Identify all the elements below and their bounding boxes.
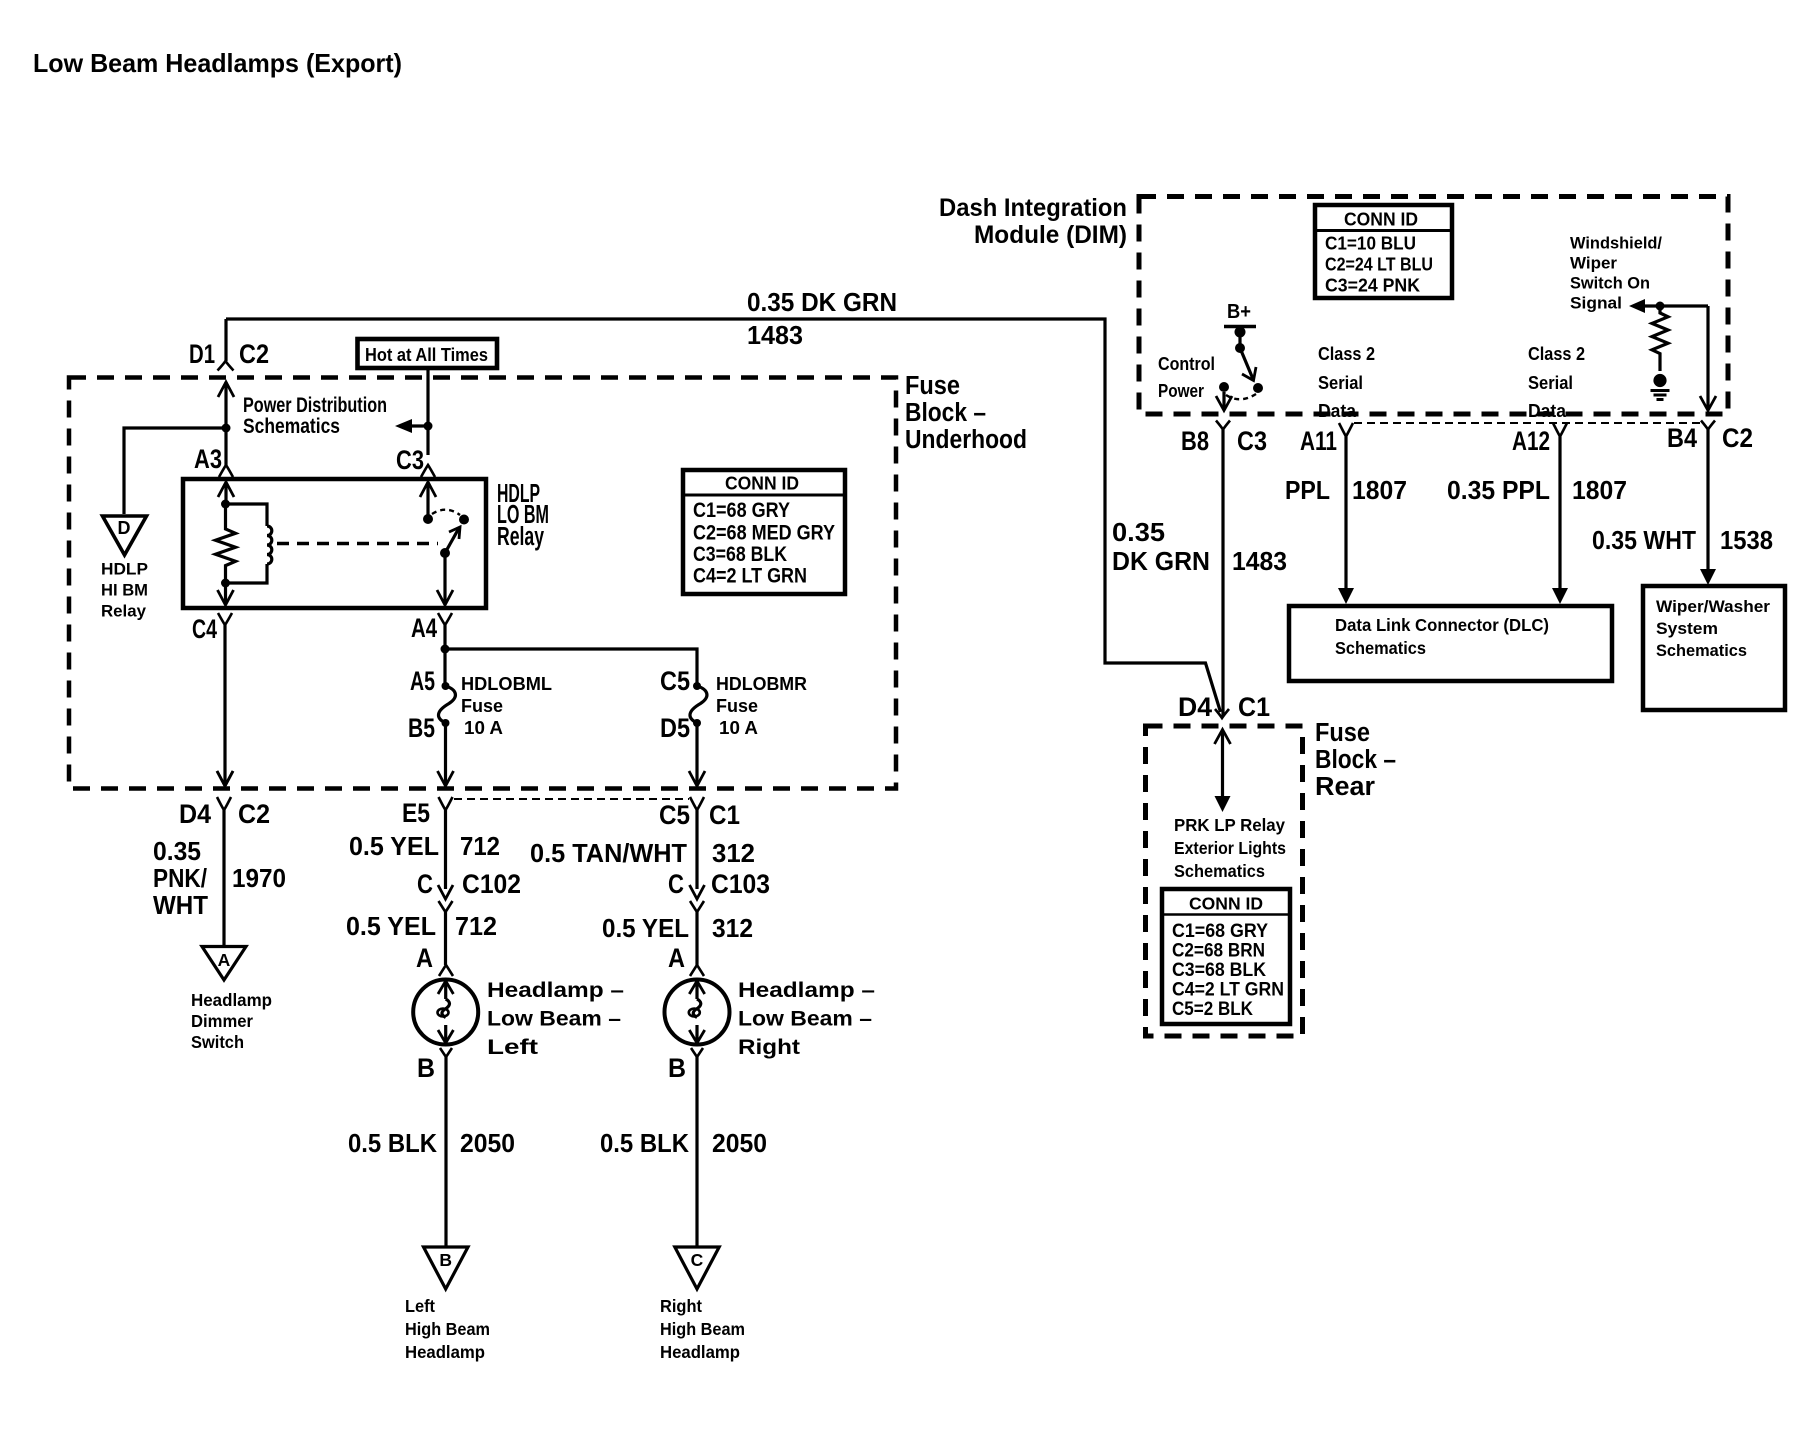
svg-text:Dimmer: Dimmer bbox=[191, 1011, 253, 1031]
svg-text:DK GRN: DK GRN bbox=[1112, 548, 1210, 576]
in-line connector C102 bbox=[438, 885, 453, 899]
svg-text:1538: 1538 bbox=[1720, 527, 1773, 555]
svg-text:A: A bbox=[218, 950, 231, 970]
wire: B4 to wiper/washer box with solid arrow bbox=[1706, 430, 1709, 571]
svg-text:C1=68 GRY: C1=68 GRY bbox=[693, 499, 790, 522]
svg-text:C: C bbox=[691, 1250, 704, 1270]
svg-text:C3=68 BLK: C3=68 BLK bbox=[1172, 960, 1266, 981]
svg-text:C1=68 GRY: C1=68 GRY bbox=[1172, 921, 1268, 942]
wire: control power down to B8 with arrow bbox=[1222, 392, 1225, 409]
svg-text:Serial: Serial bbox=[1318, 373, 1363, 393]
wire: Hot at All Times down to relay C3 bbox=[426, 368, 429, 455]
svg-text:10 A: 10 A bbox=[719, 718, 758, 738]
svg-text:HDLP: HDLP bbox=[101, 561, 148, 579]
coil L1 (relay winding) bbox=[226, 504, 268, 526]
svg-text:Fuse: Fuse bbox=[461, 696, 503, 716]
node: switch pivot bbox=[440, 548, 450, 558]
svg-text:Headlamp: Headlamp bbox=[660, 1342, 740, 1362]
svg-text:Headlamp: Headlamp bbox=[191, 990, 272, 1010]
ground bbox=[1651, 374, 1670, 400]
svg-text:Left: Left bbox=[487, 1036, 538, 1059]
in-line connector C103 bbox=[690, 885, 705, 899]
node: switch NO contact bbox=[459, 515, 469, 525]
svg-text:1483: 1483 bbox=[747, 322, 803, 350]
svg-text:Schematics: Schematics bbox=[1174, 861, 1265, 881]
svg-text:Exterior Lights: Exterior Lights bbox=[1174, 838, 1286, 858]
svg-text:A: A bbox=[416, 943, 433, 973]
power distribution feed arrow (solid, pointing left) bbox=[424, 422, 433, 431]
svg-text:Class 2: Class 2 bbox=[1528, 344, 1585, 364]
svg-text:0.5 BLK: 0.5 BLK bbox=[348, 1130, 438, 1158]
svg-text:D5: D5 bbox=[660, 713, 690, 743]
svg-text:HI BM: HI BM bbox=[101, 582, 148, 600]
connector C5/C1 cup bbox=[690, 797, 704, 810]
fuse block rear dashed box bbox=[1146, 726, 1303, 1036]
svg-text:E5: E5 bbox=[402, 798, 430, 828]
connector D4/C1 cup bbox=[1215, 709, 1229, 718]
svg-text:C3: C3 bbox=[1237, 426, 1267, 456]
svg-text:C2=68 MED GRY: C2=68 MED GRY bbox=[693, 522, 835, 545]
node: switch fixed contact (from C3) bbox=[423, 514, 433, 524]
arrow down at fuse block edge (C4 branch) bbox=[217, 771, 233, 786]
lamp: Headlamp Low Beam Left bbox=[413, 980, 478, 1045]
dashed arc control power switch bbox=[1226, 394, 1256, 399]
svg-text:C5: C5 bbox=[659, 800, 690, 830]
wire: right fuse down to C5/C1 bbox=[695, 723, 698, 785]
fuse HDLOBML 10A bbox=[438, 682, 455, 727]
svg-text:1970: 1970 bbox=[232, 865, 286, 893]
node: resistor tap bbox=[1656, 302, 1665, 311]
node: switch contact left (control power out) bbox=[1219, 382, 1229, 392]
svg-text:PNK/: PNK/ bbox=[153, 865, 207, 893]
svg-text:0.35: 0.35 bbox=[153, 838, 201, 866]
svg-text:C3: C3 bbox=[396, 445, 424, 475]
wire: B8 down to fuse block rear (0.35 DK GRN 1483) bbox=[1221, 430, 1224, 717]
svg-text:C2=24 LT BLU: C2=24 LT BLU bbox=[1325, 255, 1433, 275]
svg-text:Data Link Connector (DLC): Data Link Connector (DLC) bbox=[1335, 615, 1549, 635]
svg-text:C3=24 PNK: C3=24 PNK bbox=[1325, 276, 1420, 296]
svg-text:Relay: Relay bbox=[101, 603, 147, 621]
wire: branch to HDLP HI BM relay triangle bbox=[124, 428, 226, 514]
relay coil input arrow (up) bbox=[224, 483, 227, 504]
CONN ID table (fuse block rear) bbox=[1162, 889, 1290, 1024]
svg-text:A: A bbox=[668, 943, 685, 973]
svg-text:C5: C5 bbox=[660, 666, 690, 696]
svg-text:C4=2 LT GRN: C4=2 LT GRN bbox=[1172, 980, 1284, 1001]
fuse HDLOBMR 10A bbox=[690, 682, 707, 727]
svg-text:D1: D1 bbox=[189, 339, 215, 369]
resistor (relay) bbox=[216, 504, 236, 583]
dashed arc between contacts bbox=[432, 510, 460, 515]
node: coil top junction bbox=[221, 500, 230, 509]
wire: left fuse down to E5 bbox=[444, 723, 447, 785]
svg-text:B5: B5 bbox=[408, 713, 435, 743]
B+ bar terminal bbox=[1224, 325, 1256, 328]
svg-text:C: C bbox=[417, 869, 433, 899]
svg-text:0.5 YEL: 0.5 YEL bbox=[349, 833, 439, 861]
svg-text:Low Beam Headlamps (Export): Low Beam Headlamps (Export) bbox=[33, 48, 402, 78]
svg-text:HDLOBMR: HDLOBMR bbox=[716, 674, 807, 694]
svg-text:CONN ID: CONN ID bbox=[725, 474, 799, 494]
svg-text:Right: Right bbox=[660, 1296, 702, 1316]
svg-text:Fuse: Fuse bbox=[905, 372, 960, 400]
connector A12 cup bbox=[1553, 423, 1567, 437]
svg-text:712: 712 bbox=[455, 913, 497, 941]
svg-text:Block –: Block – bbox=[1315, 746, 1396, 774]
dashed mechanical link coil to switch bbox=[277, 542, 438, 545]
svg-text:Relay: Relay bbox=[497, 523, 545, 551]
rear feed double arrow bbox=[1221, 730, 1224, 797]
svg-text:1807: 1807 bbox=[1572, 477, 1627, 505]
svg-text:Wiper: Wiper bbox=[1570, 255, 1618, 273]
svg-text:Headlamp –: Headlamp – bbox=[487, 979, 624, 1002]
svg-text:712: 712 bbox=[460, 833, 500, 861]
node: coil bottom junction bbox=[221, 579, 230, 588]
junction node at power distribution tap bbox=[222, 424, 231, 433]
svg-text:B+: B+ bbox=[1227, 301, 1251, 323]
CONN ID table (DIM) bbox=[1315, 205, 1452, 298]
svg-text:C103: C103 bbox=[711, 869, 770, 899]
svg-text:B: B bbox=[417, 1053, 435, 1083]
svg-text:A4: A4 bbox=[411, 613, 437, 643]
arrow down at fuse block edge (E5) bbox=[438, 771, 454, 786]
resistor (windshield wiper pull-up) bbox=[1652, 306, 1668, 371]
connector D4/C2 cup bbox=[217, 797, 231, 810]
svg-text:Rear: Rear bbox=[1315, 773, 1375, 801]
triangle connector A (headlamp dimmer switch) bbox=[202, 947, 246, 981]
wire: windshield signal horizontal bbox=[1643, 304, 1708, 307]
node: switch contact right bbox=[1253, 383, 1263, 393]
wire: battery feed 0.35 DK GRN 1483 top run bbox=[226, 319, 1221, 712]
svg-text:C: C bbox=[668, 869, 684, 899]
svg-text:C4: C4 bbox=[192, 614, 217, 644]
svg-text:PRK LP Relay: PRK LP Relay bbox=[1174, 815, 1285, 835]
wire: split across to right fuse bbox=[445, 649, 697, 686]
connector A3 cup bbox=[219, 465, 233, 477]
connector cup at right lamp A bbox=[690, 965, 704, 976]
Hot at All Times box bbox=[358, 339, 498, 368]
connector B4/C2 cup bbox=[1701, 421, 1715, 430]
wire: A4 down to fuse split bbox=[443, 625, 446, 686]
svg-text:Headlamp –: Headlamp – bbox=[738, 979, 875, 1002]
svg-text:CONN ID: CONN ID bbox=[1189, 894, 1263, 914]
svg-text:PPL: PPL bbox=[1285, 477, 1330, 505]
relay U1 HDLP LO BM Relay box bbox=[183, 479, 486, 608]
svg-text:Control: Control bbox=[1158, 354, 1215, 374]
svg-text:High Beam: High Beam bbox=[660, 1319, 745, 1339]
connector D1/C2 cup bbox=[218, 361, 234, 371]
svg-text:0.35 PPL: 0.35 PPL bbox=[1447, 477, 1550, 505]
svg-text:Fuse: Fuse bbox=[716, 696, 758, 716]
in-line connector dashed line A11 to B4 bbox=[1354, 422, 1701, 424]
wire: A11 to DLC with solid arrow bbox=[1344, 437, 1347, 590]
wire: A12 to DLC with solid arrow bbox=[1558, 437, 1561, 590]
svg-text:HDLOBML: HDLOBML bbox=[461, 674, 552, 694]
svg-text:0.35 WHT: 0.35 WHT bbox=[1592, 527, 1696, 555]
connector cup below left lamp bbox=[440, 1048, 452, 1057]
svg-text:A5: A5 bbox=[410, 666, 435, 696]
svg-text:Serial: Serial bbox=[1528, 373, 1573, 393]
wire: 0.5 BLK 2050 right bbox=[695, 1057, 698, 1246]
svg-text:Fuse: Fuse bbox=[1315, 719, 1370, 747]
svg-text:A12: A12 bbox=[1512, 426, 1550, 456]
svg-text:C3=68 BLK: C3=68 BLK bbox=[693, 543, 787, 566]
Data Link Connector (DLC) Schematics box bbox=[1289, 606, 1612, 681]
svg-text:312: 312 bbox=[712, 840, 755, 868]
svg-text:1807: 1807 bbox=[1352, 477, 1407, 505]
switch arm with arrowhead bbox=[445, 528, 459, 553]
Wiper/Washer System Schematics box bbox=[1643, 586, 1785, 710]
connector C3 cup bbox=[421, 465, 435, 477]
svg-text:A11: A11 bbox=[1300, 426, 1337, 456]
svg-text:B: B bbox=[439, 1250, 452, 1270]
svg-text:0.5 YEL: 0.5 YEL bbox=[602, 915, 689, 943]
svg-text:High Beam: High Beam bbox=[405, 1319, 490, 1339]
svg-text:C1: C1 bbox=[709, 800, 740, 830]
svg-text:312: 312 bbox=[712, 915, 753, 943]
svg-text:C102: C102 bbox=[462, 869, 521, 899]
windshield signal arrow (solid, pointing left) bbox=[1629, 299, 1645, 313]
connector E5 cup bbox=[439, 797, 453, 810]
connector A4 cup bbox=[438, 613, 452, 625]
svg-text:Hot at All Times: Hot at All Times bbox=[365, 345, 488, 365]
wire: C5/C1 down to C103 bbox=[695, 810, 698, 889]
svg-text:C2: C2 bbox=[239, 339, 269, 369]
svg-text:Switch On: Switch On bbox=[1570, 275, 1650, 293]
svg-text:Right: Right bbox=[738, 1036, 800, 1059]
svg-text:0.5 TAN/WHT: 0.5 TAN/WHT bbox=[530, 840, 687, 868]
relay coil output arrow (down) bbox=[224, 583, 227, 604]
svg-text:Data: Data bbox=[1318, 401, 1357, 421]
svg-text:D4: D4 bbox=[179, 799, 211, 829]
wire: E5 down to C102 bbox=[444, 810, 447, 889]
svg-text:C2=68 BRN: C2=68 BRN bbox=[1172, 941, 1265, 962]
svg-text:C2: C2 bbox=[238, 799, 270, 829]
svg-text:Schematics: Schematics bbox=[1656, 642, 1747, 660]
wire: windshield signal down to B4 with arrow bbox=[1706, 306, 1709, 409]
fuse block underhood dashed box bbox=[69, 378, 896, 789]
CONN ID table (fuse block underhood) bbox=[683, 470, 845, 594]
svg-text:0.5 BLK: 0.5 BLK bbox=[600, 1130, 690, 1158]
lamp: Headlamp Low Beam Right bbox=[665, 980, 730, 1045]
svg-text:B: B bbox=[668, 1053, 686, 1083]
svg-text:D: D bbox=[118, 518, 131, 538]
svg-text:Low Beam –: Low Beam – bbox=[738, 1008, 872, 1031]
svg-text:B8: B8 bbox=[1181, 426, 1209, 456]
wire: C103 down to right lamp A bbox=[695, 912, 698, 965]
svg-text:0.35 DK GRN: 0.35 DK GRN bbox=[747, 289, 897, 317]
triangle connector C (right high beam headlamp) bbox=[675, 1247, 719, 1289]
svg-text:D4: D4 bbox=[1178, 692, 1212, 722]
triangle connector B (left high beam headlamp) bbox=[424, 1247, 469, 1289]
wire: stub down to D1/C2 connector bbox=[224, 319, 227, 361]
node: fuse feed split bbox=[441, 645, 450, 654]
svg-text:Headlamp: Headlamp bbox=[405, 1342, 485, 1362]
svg-text:Low Beam –: Low Beam – bbox=[487, 1008, 621, 1031]
arrow up into fuse block at D1 with shaft bbox=[224, 382, 227, 465]
svg-text:Power Distribution: Power Distribution bbox=[243, 394, 387, 417]
svg-text:Wiper/Washer: Wiper/Washer bbox=[1656, 598, 1771, 616]
svg-text:B4: B4 bbox=[1667, 423, 1697, 453]
connector cup below right lamp bbox=[691, 1048, 703, 1057]
svg-text:1483: 1483 bbox=[1232, 548, 1287, 576]
in-line connector dashed line E5 to C5 bbox=[454, 798, 689, 800]
svg-text:A3: A3 bbox=[194, 444, 222, 474]
wire: 0.5 BLK 2050 left bbox=[444, 1057, 447, 1246]
svg-text:Signal: Signal bbox=[1570, 295, 1622, 313]
svg-text:2050: 2050 bbox=[460, 1130, 515, 1158]
svg-text:Module (DIM): Module (DIM) bbox=[974, 221, 1127, 249]
svg-text:Left: Left bbox=[405, 1296, 435, 1316]
svg-text:C1=10 BLU: C1=10 BLU bbox=[1325, 234, 1416, 254]
svg-text:System: System bbox=[1656, 620, 1718, 638]
connector A11 cup bbox=[1339, 423, 1353, 437]
svg-text:CONN ID: CONN ID bbox=[1344, 210, 1418, 230]
triangle connector D (HDLP HI BM Relay) bbox=[103, 516, 147, 555]
svg-text:Windshield/: Windshield/ bbox=[1570, 235, 1662, 253]
svg-text:2050: 2050 bbox=[712, 1130, 767, 1158]
svg-text:C5=2 BLK: C5=2 BLK bbox=[1172, 999, 1253, 1020]
svg-text:Dash Integration: Dash Integration bbox=[939, 194, 1127, 222]
svg-text:Schematics: Schematics bbox=[1335, 638, 1426, 658]
svg-text:0.5 YEL: 0.5 YEL bbox=[346, 913, 436, 941]
connector B8/C3 cup bbox=[1216, 421, 1230, 430]
svg-text:Underhood: Underhood bbox=[905, 426, 1027, 454]
svg-text:C4=2 LT GRN: C4=2 LT GRN bbox=[693, 565, 807, 588]
wire: C102 down to lamp A bbox=[444, 912, 447, 965]
svg-text:C1: C1 bbox=[1238, 692, 1270, 722]
arrow down at fuse block edge (C5/C1) bbox=[689, 771, 705, 786]
wire: C4 down to fuse block exit bbox=[223, 625, 226, 785]
svg-text:WHT: WHT bbox=[153, 892, 208, 920]
DIM dashed box (Dash Integration Module) bbox=[1139, 197, 1728, 415]
relay switch output arrow (down to A4) bbox=[443, 553, 446, 604]
arrow down at fuse block edge (D4/C2 branch) bbox=[217, 771, 233, 786]
connector cup at left lamp A bbox=[439, 965, 453, 976]
control power switch arm bbox=[1238, 332, 1241, 347]
svg-text:Schematics: Schematics bbox=[243, 415, 340, 438]
svg-text:C2: C2 bbox=[1722, 423, 1753, 453]
svg-text:Switch: Switch bbox=[191, 1032, 244, 1052]
svg-text:0.35: 0.35 bbox=[1112, 519, 1165, 547]
connector C4 cup bbox=[218, 613, 232, 625]
wire: 0.35 PNK/WHT 1970 to dimmer switch bbox=[222, 810, 225, 945]
svg-text:Block –: Block – bbox=[905, 399, 986, 427]
relay switch common arrow (up at C3) bbox=[426, 482, 429, 519]
svg-text:Class 2: Class 2 bbox=[1318, 344, 1375, 364]
svg-text:10 A: 10 A bbox=[464, 718, 503, 738]
svg-text:Power: Power bbox=[1158, 381, 1204, 401]
svg-text:Data: Data bbox=[1528, 401, 1567, 421]
